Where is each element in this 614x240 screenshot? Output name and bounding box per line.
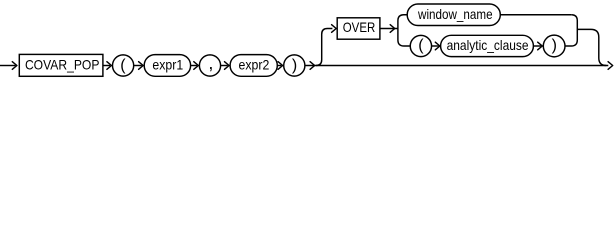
wire merge bracket right xyxy=(565,15,577,46)
arrowhead after OVER xyxy=(390,25,395,33)
wire OVER to split xyxy=(380,28,398,30)
arrowhead to rparen xyxy=(278,62,283,70)
svg-text:,: , xyxy=(208,53,213,73)
arrowhead entry xyxy=(12,62,17,70)
arrowhead after rparen xyxy=(310,62,315,70)
wire branch up to OVER xyxy=(316,29,332,66)
wire entry xyxy=(0,65,16,67)
node lparen circle xyxy=(113,55,134,76)
node lparen2 circle xyxy=(410,35,431,56)
svg-text:expr2: expr2 xyxy=(239,56,270,72)
terminal box OVER xyxy=(337,18,380,39)
node comma circle xyxy=(199,55,220,76)
wire expr2 to rparen xyxy=(277,65,281,67)
arrowhead to rparen2 xyxy=(538,42,543,50)
svg-text:window_name: window_name xyxy=(417,6,493,22)
wire lparen to expr1 xyxy=(134,65,142,67)
svg-text:expr1: expr1 xyxy=(152,56,183,72)
wire merge exit down to main xyxy=(577,29,606,65)
wire split bracket left xyxy=(398,15,410,46)
arrowhead exit xyxy=(608,62,613,70)
arrowhead to comma xyxy=(194,62,199,70)
terminal box COVAR_POP xyxy=(19,54,103,76)
node analytic_clause oval xyxy=(441,35,534,56)
svg-text:analytic_clause: analytic_clause xyxy=(447,37,529,53)
wire window_name to merge xyxy=(500,14,571,16)
svg-text:(: ( xyxy=(120,57,126,74)
wire analytic_clause to rparen2 xyxy=(533,45,541,47)
arrowhead to expr1 xyxy=(139,62,144,70)
svg-text:(: ( xyxy=(418,37,424,54)
node window_name oval xyxy=(407,4,500,26)
svg-text:OVER: OVER xyxy=(343,19,376,35)
arrowhead to OVER xyxy=(332,25,337,33)
wire comma to expr2 xyxy=(221,65,228,67)
node rparen2 circle xyxy=(543,35,565,57)
arrowhead to lparen xyxy=(107,62,112,70)
node expr2 oval xyxy=(230,55,277,77)
wire lparen2 to analytic_clause xyxy=(432,45,439,47)
svg-text:): ) xyxy=(552,37,557,54)
node expr1 oval xyxy=(144,55,190,77)
wire main bypass line xyxy=(305,65,608,67)
node rparen circle xyxy=(284,55,305,76)
arrowhead to expr2 xyxy=(225,62,230,70)
svg-text:COVAR_POP: COVAR_POP xyxy=(25,56,100,72)
wire box1 to lparen xyxy=(103,65,110,67)
wire expr1 to comma xyxy=(191,65,198,67)
arrowhead to analytic_clause xyxy=(435,42,440,50)
svg-text:): ) xyxy=(292,57,297,74)
